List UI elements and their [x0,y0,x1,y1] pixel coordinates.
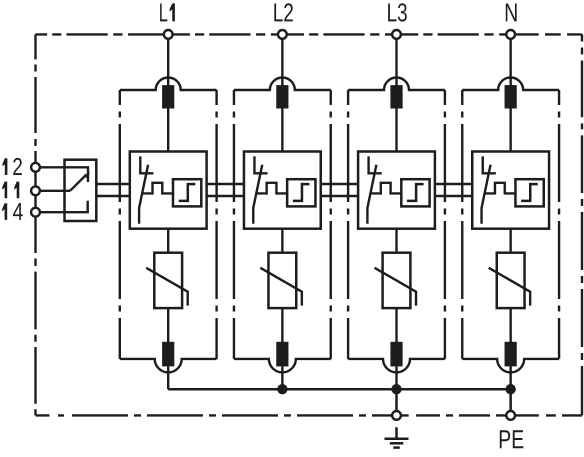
channel module L1 [120,39,217,389]
terminal L1 [164,30,173,39]
enclosure border left (dash-dot) [34,34,36,415]
channel module L2 [234,39,331,389]
junction N-bus [505,384,515,394]
wire: bus to PE terminal [509,389,512,411]
trigger bus lower wire L1-L2 [207,195,244,197]
contact 14 wire and fixed contact [40,201,87,213]
label L1 [160,3,175,21]
trigger bus lower wire L3-N [435,195,472,197]
ground symbol [385,427,409,447]
channel module N [462,39,559,389]
trigger bus upper wire L1-L2 [207,183,244,185]
label L3 [388,3,407,21]
label N [506,4,517,22]
remote signalling changeover contact (relay) [40,160,96,221]
label 12 [3,158,22,175]
terminal L2 [278,30,287,39]
trigger bus upper wire relay-L1 [96,183,130,185]
relay box [65,160,97,221]
trigger bus upper wire L2-L3 [321,183,358,185]
terminal L3 [392,30,401,39]
terminal PE [506,411,515,420]
earth terminal circle [392,411,401,420]
terminal 12 [31,163,40,172]
trigger bus lower wire relay-L1 [96,195,130,197]
channel module L3 [348,39,445,389]
label L2 [274,3,293,21]
contact 12 wire and fixed contact [40,167,88,182]
terminal N [506,30,515,39]
relay blade arrowhead [84,172,90,178]
enclosure border bottom (dash-dot) [36,414,583,416]
label 14 [2,203,23,220]
trigger bus upper wire L3-N [435,183,472,185]
trigger bus lower wire L2-L3 [321,195,358,197]
PE collecting bus [168,388,510,391]
label 11 [2,182,19,199]
relay blade [70,175,86,190]
label PE [500,430,524,448]
terminal 11 [31,186,40,195]
junction L2-bus [277,384,287,394]
contact 11 common wire [40,190,70,192]
terminal 14 [31,208,40,217]
wire: bus to earth terminal [395,389,398,411]
enclosure border top (dash-dot) [36,33,583,35]
enclosure border right (dash-dot) [581,34,583,415]
junction L3-bus [391,384,401,394]
